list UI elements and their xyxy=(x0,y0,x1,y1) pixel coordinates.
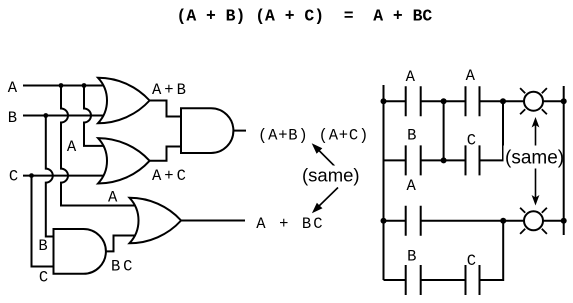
contact C branch1 xyxy=(466,145,480,175)
svg-text:(same): (same) xyxy=(505,148,564,169)
wire A+C from OR2 to AND1 xyxy=(150,147,182,161)
contact C branch2 xyxy=(466,265,480,295)
lamp 2 xyxy=(524,211,543,230)
wire right power rail xyxy=(563,86,565,235)
contact A rung1 second xyxy=(466,86,480,116)
svg-text:(A+B) (A+C): (A+B) (A+C) xyxy=(258,127,369,145)
svg-text:A+B: A+B xyxy=(152,81,189,99)
svg-text:C: C xyxy=(467,252,476,270)
contact B branch1 xyxy=(406,145,421,175)
arrow to A+BC xyxy=(312,188,338,214)
svg-text:B: B xyxy=(8,109,17,127)
svg-text:C: C xyxy=(467,131,476,149)
node junction dot B xyxy=(43,113,48,118)
svg-text:B: B xyxy=(38,237,47,255)
node dot rail-rung2 xyxy=(381,218,387,224)
or-gate OR2 (A+C) xyxy=(98,138,150,183)
contact B branch2 xyxy=(406,265,421,295)
node dot rung1 rail right xyxy=(561,98,567,104)
wire A branch 1 to OR3 (hops over B and C) xyxy=(61,86,137,206)
svg-text:C: C xyxy=(39,269,48,287)
svg-text:A: A xyxy=(407,177,417,195)
wire branch1 up to rung1 xyxy=(480,101,504,160)
and-gate AND1 ((A+B)(A+C)) xyxy=(181,108,233,153)
wire branch2 segment B-C xyxy=(421,279,466,281)
svg-text:A + BC: A + BC xyxy=(256,215,324,233)
vertical double arrow (same) right xyxy=(504,117,565,206)
wire connector rung1-branch1 xyxy=(443,101,445,160)
node junction dot C xyxy=(29,173,34,178)
wire A branch 2 to OR2 (hops over B) xyxy=(84,86,105,146)
svg-text:C: C xyxy=(9,168,18,186)
node dot rail1-rung1 xyxy=(381,98,387,104)
lamp 1 xyxy=(524,92,543,111)
svg-text:A: A xyxy=(67,138,77,156)
wire rung2 segment rail-A xyxy=(384,220,406,222)
or-gate OR3 (A+BC) xyxy=(130,198,182,243)
contact A rung1 first xyxy=(406,86,421,116)
svg-text:(A + B) (A + C) = A + BC: (A + B) (A + C) = A + BC xyxy=(177,6,433,25)
wire branch2 segment rail-B xyxy=(384,279,406,281)
and-gate AND2 (BC) xyxy=(54,229,106,274)
node dot rung2 right xyxy=(500,218,506,224)
svg-text:A: A xyxy=(8,79,18,97)
node junction dot A1 xyxy=(59,83,64,88)
wire left power rail xyxy=(383,85,385,280)
or-gate OR1 (A+B) xyxy=(98,78,150,123)
wire BC from AND2 to OR3 xyxy=(106,236,137,252)
node dot rung1 mid xyxy=(441,98,447,104)
svg-text:A: A xyxy=(406,68,416,86)
wire branch2 up to rung2 xyxy=(480,221,504,280)
wire OR3 output A+BC xyxy=(181,220,245,222)
wire rung1 segment to lamp1 xyxy=(480,100,524,102)
node dot rung2 rail right xyxy=(561,218,567,224)
svg-text:BC: BC xyxy=(111,258,135,276)
svg-text:(same): (same) xyxy=(302,165,360,186)
wire branch1 segment rail-B xyxy=(384,159,406,161)
arrow to (A+B)(A+C) xyxy=(312,143,342,173)
svg-text:B: B xyxy=(407,247,416,265)
wire rung1 segment A-A xyxy=(421,100,466,102)
wire lamp2 to rail xyxy=(544,220,564,222)
wire A+B from OR1 to AND1 xyxy=(150,101,182,117)
svg-text:A: A xyxy=(108,189,118,207)
node dot branch1 mid xyxy=(441,157,447,163)
node junction dot A2 xyxy=(82,83,87,88)
wire branch1 segment B-C xyxy=(421,159,466,161)
svg-text:A+C: A+C xyxy=(152,167,189,185)
wire input B xyxy=(23,115,105,117)
wire input C xyxy=(23,175,105,177)
wire rung1 segment L1-A xyxy=(384,100,406,102)
wire rung2 segment to lamp2 xyxy=(421,220,524,222)
ladder diagram right xyxy=(384,85,564,295)
wire AND1 output xyxy=(233,130,246,132)
wire C branch to AND2 xyxy=(32,176,56,267)
svg-text:B: B xyxy=(407,127,416,145)
wire lamp1 to rail xyxy=(544,100,564,102)
svg-text:A: A xyxy=(466,67,476,85)
node dot rung1 right xyxy=(500,98,506,104)
label (same) left xyxy=(300,165,361,188)
wire input A xyxy=(23,85,105,87)
wire B branch to AND2 (hops over C) xyxy=(46,116,55,237)
contact A rung2 xyxy=(406,206,421,236)
